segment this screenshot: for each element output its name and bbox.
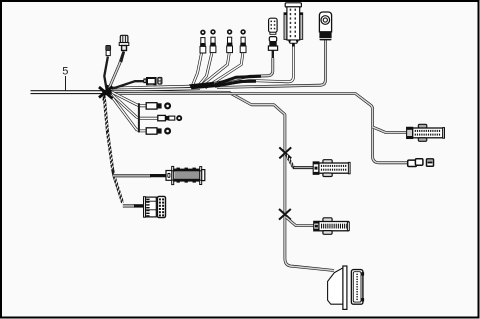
ring terminal connector R3: [146, 128, 171, 135]
black lead to connector E1: [150, 174, 168, 177]
top connector A4: [240, 29, 246, 52]
wire from top connector A1: [192, 53, 202, 86]
wire to ring terminal R1: [110, 91, 148, 106]
connector CA (small bullet, top left): [106, 46, 111, 56]
wire to ring terminal R3: [110, 94, 148, 131]
connector CB (ribbed plug): [119, 35, 129, 50]
terminal piece I (small square): [427, 159, 434, 166]
ring terminal connector R1: [146, 102, 171, 109]
connector K housing (bottom, bell shroud): [328, 266, 347, 309]
sensor D (cylindrical with eye): [319, 12, 331, 40]
connector H (two-step bullet): [408, 159, 423, 167]
junction starburst: [99, 85, 113, 101]
wire bundle junction to A-blob (second pair): [110, 89, 200, 91]
leader line for label 5: [65, 76, 67, 91]
connector B (small multi-pin plug): [268, 18, 277, 50]
twisted lead from X1 to F1: [286, 155, 293, 168]
top connector A3: [227, 29, 233, 52]
wire from top connector A4: [205, 53, 243, 88]
main harness wire (left): [31, 91, 105, 94]
wire to connector CA (thick black): [104, 57, 108, 91]
wire from sensor D: [217, 40, 325, 88]
twisted pair drop T2: [113, 170, 124, 205]
black lead to connector E2: [134, 204, 145, 207]
wire from top connector A3: [200, 53, 229, 86]
svg-text:5: 5: [62, 66, 68, 78]
wire bundle junction to A-blob (upper pair): [110, 86, 192, 88]
grey lead to connector E1: [114, 174, 152, 177]
connector F1 (dotted barrel connector): [313, 160, 350, 177]
wire to connector CB: [109, 52, 124, 90]
connector G1 (dotted barrel connector, right): [407, 124, 445, 141]
lead into connector F1: [293, 166, 315, 169]
taped bundle overlay (B/C wires merge): [215, 76, 262, 85]
harness tie bar: [138, 103, 140, 132]
connector E1 (long ECU connector): [166, 166, 205, 184]
connector E2 (dual-block connector): [144, 196, 166, 217]
converge blob for top connector wires: [189, 82, 218, 90]
connector F2 (striped barrel connector): [314, 218, 350, 235]
X splice mark X2: [279, 209, 291, 220]
grey lead to connector E2: [123, 204, 135, 207]
top connector A1 (bullet with ring terminal): [200, 30, 206, 53]
wire from top connector A2: [197, 53, 212, 87]
X splice mark X1: [279, 147, 291, 158]
top connector A2: [210, 29, 216, 52]
wire branch: junction to vertical drop x=284 (injector feed): [110, 91, 334, 270]
connector K mating face: [351, 270, 364, 305]
wire from connector B: [214, 50, 273, 84]
connector C (large multi-pin): [284, 3, 303, 47]
wire to ring terminal R2: [110, 93, 159, 119]
lead from X2 to F2: [286, 217, 315, 225]
connector CC (square plug with mate): [143, 77, 162, 86]
twisted pair main drop T1: [103, 97, 113, 170]
wire: junction to right side (sensor connectors feed): [110, 94, 408, 163]
wire from connector C: [216, 43, 293, 86]
ring terminal connector R2: [158, 115, 182, 121]
wire branch to connector G1: [373, 127, 408, 132]
wire to connector CC (thick black): [112, 81, 144, 89]
